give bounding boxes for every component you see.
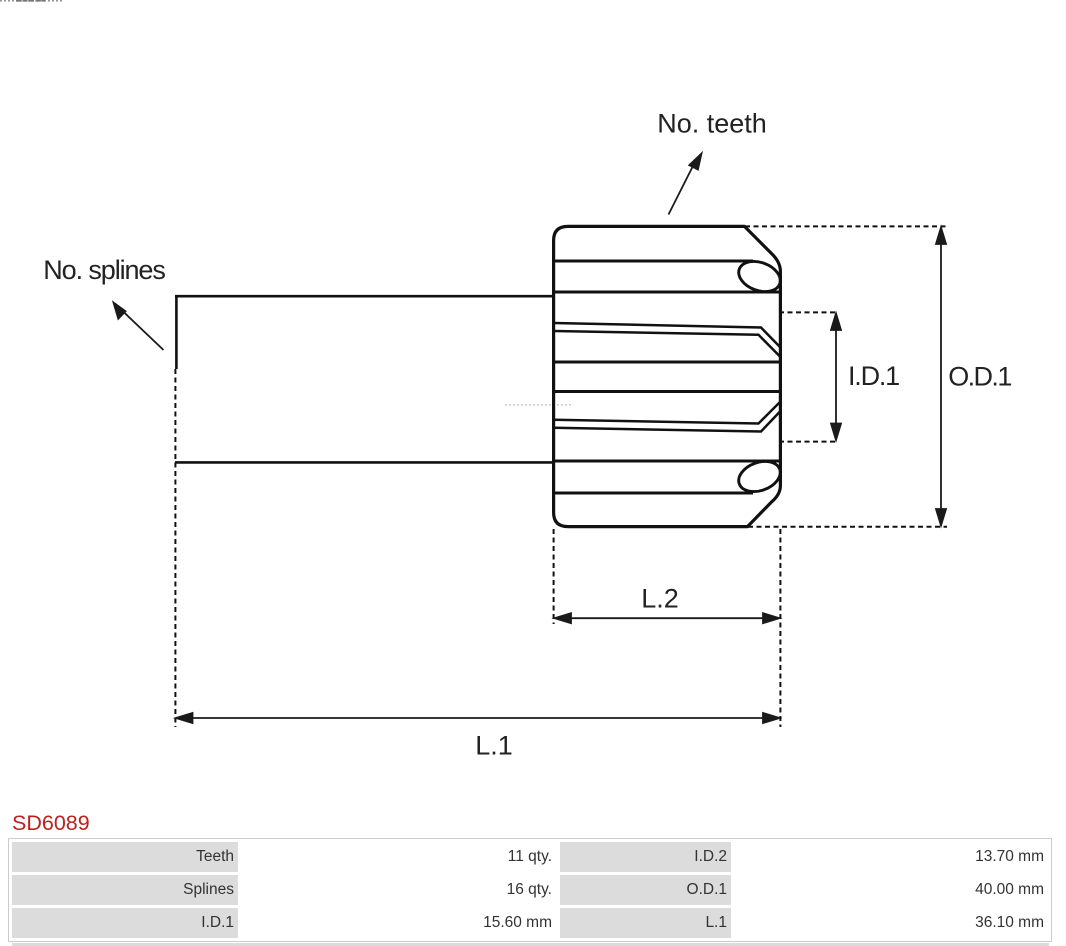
svg-text:No. teeth: No. teeth (657, 109, 767, 139)
svg-text:No. splines: No. splines (43, 255, 165, 285)
svg-text:I.D.1: I.D.1 (848, 361, 899, 391)
svg-text:L.1: L.1 (475, 731, 513, 761)
svg-text:L.2: L.2 (641, 584, 679, 614)
svg-text:O.D.1: O.D.1 (948, 362, 1011, 392)
